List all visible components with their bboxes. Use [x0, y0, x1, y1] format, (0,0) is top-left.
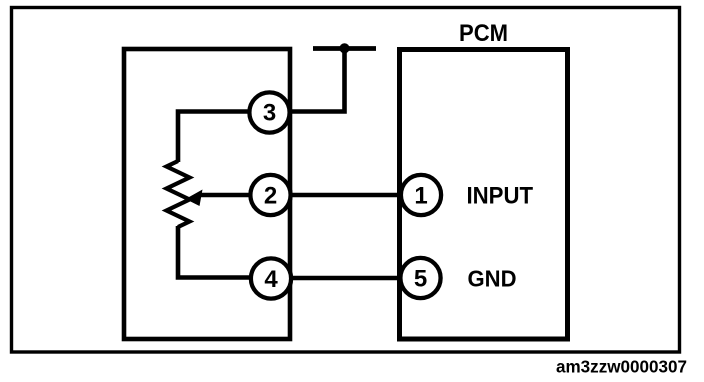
- svg-text:PCM: PCM: [459, 20, 508, 47]
- svg-text:1: 1: [414, 183, 427, 210]
- wiper arrowhead: [186, 190, 203, 207]
- sensor box (left component outline): [124, 49, 290, 339]
- svg-text:2: 2: [264, 183, 277, 210]
- wire pin4 to pin5: [291, 276, 401, 281]
- pin 1: [401, 175, 441, 215]
- svg-text:INPUT: INPUT: [467, 183, 534, 210]
- svg-text:4: 4: [264, 266, 278, 293]
- wire potentiometer bottom to pin4: [178, 226, 252, 278]
- supply rail B+: [313, 46, 376, 51]
- svg-text:3: 3: [263, 100, 276, 127]
- wire pin3 to potentiometer top: [178, 112, 250, 163]
- pin 2: [250, 175, 290, 215]
- wire pin3 right to supply drop: [291, 49, 345, 112]
- junction dot: [339, 43, 349, 53]
- pin 3: [249, 92, 289, 132]
- svg-text:5: 5: [414, 266, 427, 293]
- resistor R1 potentiometer element (zigzag): [167, 161, 190, 227]
- pin 5: [400, 258, 440, 298]
- pin 4: [251, 258, 291, 298]
- wire pin2 to pin1: [291, 193, 401, 198]
- wire wiper arm from pin2: [201, 193, 250, 197]
- svg-text:am3zzw0000307: am3zzw0000307: [556, 357, 687, 377]
- svg-text:GND: GND: [468, 266, 517, 292]
- PCM U1 box: [400, 50, 568, 340]
